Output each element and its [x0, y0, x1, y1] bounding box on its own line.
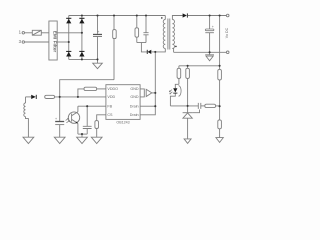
- svg-text:GND: GND: [130, 87, 139, 91]
- secondary bottom lead wire: [172, 49, 173, 53]
- diode D7 output rectifier: [183, 13, 188, 17]
- diode D4 bridge bottom-right: [79, 51, 84, 57]
- wire fuse to EMI filter: [41, 32, 49, 34]
- ground (TL431): [184, 139, 191, 144]
- IC ground arrow: [146, 89, 152, 96]
- IC GND pins bracket: [140, 89, 144, 97]
- snubber capacitor C2: [145, 16, 147, 33]
- wire EMI to bridge right AC node: [57, 32, 82, 34]
- ground (CS): [91, 137, 102, 143]
- feedback node wire: [170, 105, 198, 107]
- svg-text:Vo DC: Vo DC: [225, 27, 229, 38]
- transformer core: [168, 19, 170, 50]
- diode D1 bridge top-left: [66, 18, 71, 24]
- diode D5 snubber clamp: [147, 50, 152, 54]
- optocoupler body arc: [179, 86, 182, 97]
- secondary 0V rail: [174, 51, 227, 53]
- snubber resistor R2: [136, 16, 138, 28]
- ground (bridge): [97, 59, 99, 63]
- ground (divider): [216, 138, 223, 143]
- VDDO resistor R3: [78, 89, 84, 97]
- transformer T1 secondary: [172, 20, 174, 49]
- CS resistor R5: [95, 121, 99, 129]
- svg-text:+: +: [55, 117, 57, 121]
- FB wire: [78, 105, 106, 107]
- diode D6 aux rectifier: [31, 95, 37, 99]
- fuse F1: [32, 30, 41, 35]
- wire aux winding to diode: [26, 96, 32, 98]
- wire startup to VDD node: [60, 80, 114, 97]
- output capacitor C5: [209, 16, 211, 30]
- optocoupler arrows: [169, 90, 172, 94]
- svg-text:FB: FB: [107, 105, 112, 109]
- ground (emitter): [81, 134, 83, 137]
- VDD supply wire: [55, 96, 106, 98]
- resistor R9: [187, 66, 189, 69]
- ground (aux winding): [23, 137, 34, 143]
- bridge bottom rail: [69, 58, 98, 60]
- svg-text:1: 1: [19, 30, 22, 35]
- svg-text:GND: GND: [130, 95, 139, 99]
- phototransistor light arrows: [66, 118, 70, 123]
- EMI filter block: [49, 21, 57, 60]
- top DC rail: [69, 15, 166, 17]
- drain wire vertical: [154, 52, 156, 106]
- CS wire: [97, 115, 106, 121]
- resistor R6 divider upper: [219, 66, 221, 70]
- terminal 3 (line input N): [22, 41, 24, 43]
- svg-text:3: 3: [19, 39, 22, 44]
- svg-text:OB1243: OB1243: [116, 120, 129, 124]
- svg-text:Drain: Drain: [130, 105, 139, 109]
- bridge right column wire: [81, 16, 83, 60]
- svg-text:+: +: [212, 25, 214, 29]
- svg-text:VDDO: VDDO: [107, 87, 118, 91]
- emitter wire: [78, 133, 87, 135]
- ground (secondary): [209, 52, 211, 55]
- FB capacitor C4: [86, 106, 88, 126]
- resistor R10 compensation: [205, 104, 216, 107]
- wire output diode to +V terminal: [188, 15, 227, 17]
- TL431 U3: [187, 106, 189, 113]
- feedback sense wire: [219, 16, 221, 66]
- wire EMI to bridge left AC node: [57, 41, 69, 43]
- svg-text:+: +: [97, 30, 99, 34]
- IC U1 controller: [106, 85, 140, 120]
- svg-text:Drain: Drain: [130, 113, 139, 117]
- TL431 ref wire: [193, 110, 200, 113]
- primary bottom lead wire: [155, 49, 165, 52]
- optocoupler U2 LED: [175, 84, 179, 88]
- aux winding L1: [25, 97, 27, 103]
- snubber join wire: [137, 42, 146, 44]
- VDD capacitor C3: [59, 97, 61, 121]
- startup resistor R1: [113, 16, 115, 30]
- wire terminal1 to fuse: [25, 32, 33, 34]
- output terminal -: [226, 51, 229, 54]
- terminal 1 (line input L): [22, 32, 24, 34]
- divider top wire: [179, 65, 220, 67]
- diode D3 bridge bottom-left: [66, 51, 71, 57]
- diode D2 bridge top-right: [79, 18, 84, 24]
- IC drain pin wires: [140, 105, 155, 107]
- capacitor C6 compensation: [198, 103, 201, 109]
- secondary phase dot: [175, 46, 177, 48]
- svg-text:EMI Filter: EMI Filter: [51, 31, 57, 53]
- svg-text:VDD: VDD: [107, 95, 115, 99]
- bulk capacitor C1: [97, 16, 99, 34]
- resistor R7 divider lower: [219, 106, 221, 120]
- transformer T1 primary: [164, 16, 166, 20]
- svg-text:CS: CS: [107, 113, 113, 117]
- resistor R4 aux: [45, 95, 55, 98]
- output terminal +: [226, 14, 229, 17]
- resistor R8 opto bias: [178, 66, 180, 69]
- secondary top lead wire: [172, 16, 182, 20]
- bridge left column wire: [68, 16, 70, 60]
- phototransistor Q1: [68, 112, 79, 123]
- ground (VDD cap): [54, 137, 65, 143]
- wire terminal3 to EMI filter: [25, 41, 49, 43]
- primary phase dot: [161, 17, 163, 19]
